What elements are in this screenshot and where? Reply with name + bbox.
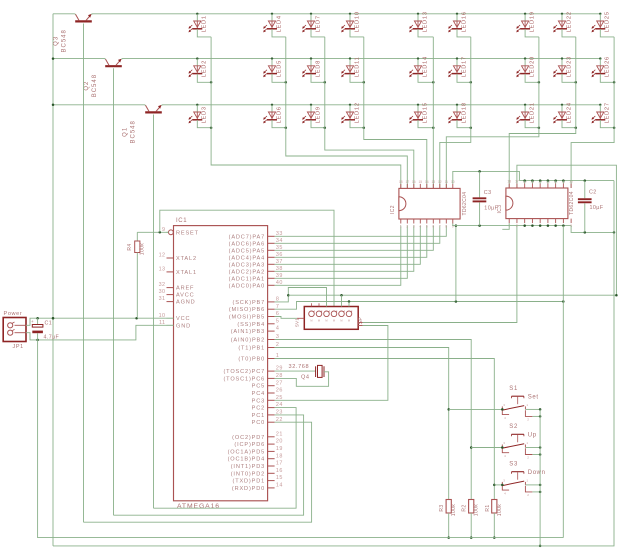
IC ATMEGA16 IC1 body	[174, 218, 268, 510]
svg-text:(ADC5)PA5: (ADC5)PA5	[229, 248, 265, 254]
wire GND from JP1 to IC1 pin11	[26, 325, 167, 341]
wire IC2 supply to rail	[453, 170, 520, 184]
svg-text:(TOSC2)PC7: (TOSC2)PC7	[223, 369, 265, 375]
svg-text:LED7: LED7	[315, 15, 321, 32]
svg-text:(MOSI)PB5: (MOSI)PB5	[229, 315, 265, 321]
wire LED column 6 cathode drop	[440, 29, 472, 188]
svg-text:RESET: RESET	[176, 230, 199, 236]
svg-text:(ICP)PD6: (ICP)PD6	[234, 442, 265, 448]
svg-text:1: 1	[400, 225, 402, 229]
IC1 left pins	[159, 227, 199, 329]
wire LED column 9 cathode drop	[571, 29, 615, 188]
svg-text:LED21: LED21	[530, 102, 536, 123]
LED LED25	[592, 11, 611, 32]
svg-text:18: 18	[276, 453, 283, 459]
svg-text:LED11: LED11	[354, 56, 360, 77]
svg-text:15: 15	[418, 180, 422, 184]
svg-text:SV1: SV1	[295, 318, 300, 327]
wire RESET net	[137, 210, 334, 306]
crystal Q4 32.768	[275, 364, 329, 386]
svg-text:S3: S3	[509, 462, 518, 468]
svg-text:Q2: Q2	[84, 81, 90, 91]
wire Q1 base to PC2 bus	[153, 115, 155, 509]
wire S3 right to common	[525, 484, 541, 494]
svg-text:17: 17	[276, 461, 283, 467]
svg-text:(ADC0)PA0: (ADC0)PA0	[229, 283, 265, 289]
svg-text:AVCC: AVCC	[176, 293, 195, 299]
svg-text:6: 6	[432, 225, 434, 229]
wire row3 anode rail	[53, 104, 600, 106]
transistor Q1 BC548	[123, 105, 162, 144]
svg-text:17: 17	[405, 180, 409, 184]
wire PC3 to ISP	[275, 326, 388, 401]
svg-text:IC2: IC2	[390, 205, 396, 214]
resistor R1 100k	[485, 499, 503, 539]
svg-text:LED5: LED5	[276, 60, 282, 77]
connector SV1 ISP header	[295, 303, 364, 329]
wire PC1 to Q2 base	[114, 415, 304, 515]
wire ISP to IC3 input	[363, 225, 517, 323]
svg-text:LED19: LED19	[530, 11, 536, 32]
svg-text:(SCK)PB7: (SCK)PB7	[232, 300, 265, 306]
wire IC3 gnd drop	[562, 226, 564, 538]
LED LED2	[189, 57, 208, 77]
wire switch common vertical	[539, 409, 542, 547]
wire IC2 bottom pin9 / C3 gnd	[453, 224, 571, 227]
wire PA staircase to IC2	[275, 226, 447, 286]
svg-text:8: 8	[445, 225, 447, 229]
wire MOSI net (PB5) to ISP	[275, 317, 297, 319]
svg-text:(AIN0)PB2: (AIN0)PB2	[231, 338, 265, 344]
svg-text:(ADC4)PA4: (ADC4)PA4	[229, 255, 265, 261]
svg-text:16: 16	[412, 180, 416, 184]
LED LED4	[263, 13, 282, 33]
svg-text:18: 18	[399, 180, 403, 184]
switch S1 Set	[502, 386, 539, 421]
svg-text:LED22: LED22	[566, 11, 572, 32]
LED LED5	[263, 57, 282, 77]
svg-text:Q3: Q3	[54, 36, 60, 46]
LED LED6	[263, 104, 282, 124]
LED LED14	[409, 56, 428, 77]
wire supply rail over IC3	[519, 179, 614, 183]
LED LED7	[302, 13, 321, 33]
LED LED1	[189, 13, 208, 33]
svg-text:(SS)PB4: (SS)PB4	[237, 322, 265, 328]
svg-text:BC548: BC548	[131, 120, 137, 143]
svg-text:S1: S1	[509, 386, 518, 392]
svg-text:LED15: LED15	[422, 102, 428, 123]
wire LED column 4 cathode drop	[350, 29, 427, 188]
wire Q2 base to PC1 bus	[113, 68, 115, 515]
svg-text:LED20: LED20	[530, 56, 536, 77]
wire IC2 ground riser	[455, 224, 458, 301]
wire S1 right to common	[525, 408, 541, 418]
svg-text:LED27: LED27	[605, 102, 611, 123]
svg-text:15: 15	[276, 475, 283, 481]
wire LED column 2 cathode drop	[272, 29, 407, 188]
LED LED3	[189, 104, 208, 124]
LED LED20	[516, 56, 535, 77]
svg-text:M: M	[325, 319, 327, 323]
wire LED column 3 cathode drop	[311, 29, 414, 188]
svg-text:(ADC1)PA1: (ADC1)PA1	[229, 276, 265, 282]
wire row1 anode rail	[53, 13, 600, 15]
resistor R4 100k	[127, 232, 146, 318]
transistor Q2 BC548	[84, 59, 122, 98]
svg-text:Q1: Q1	[123, 127, 129, 137]
svg-text:LED13: LED13	[422, 11, 428, 32]
LED LED12	[341, 102, 360, 123]
LED LED13	[409, 11, 428, 32]
LED LED27	[592, 102, 611, 123]
svg-text:10µF: 10µF	[590, 205, 604, 211]
LED LED23	[553, 56, 572, 77]
LED LED21	[516, 102, 535, 123]
svg-text:(ADC3)PA3: (ADC3)PA3	[229, 262, 265, 268]
svg-text:30: 30	[159, 289, 166, 295]
svg-text:C3: C3	[484, 190, 492, 196]
svg-text:M: M	[333, 319, 335, 323]
wire SCK to IC3 pin	[517, 165, 617, 295]
transistor Q3 BC548	[54, 14, 92, 53]
svg-text:(MISO)PB6: (MISO)PB6	[229, 307, 265, 313]
svg-text:LED10: LED10	[354, 11, 360, 32]
wire LED column 1 cathode drop	[197, 29, 400, 188]
wire PB1 to S1	[275, 348, 450, 500]
svg-text:(OC1B)PD4: (OC1B)PD4	[228, 457, 266, 463]
svg-text:LED26: LED26	[605, 56, 611, 77]
IC2 pins	[399, 180, 455, 229]
svg-text:PC3: PC3	[252, 398, 265, 404]
svg-text:PC4: PC4	[252, 391, 265, 397]
IC TD62C04 IC2 body	[390, 188, 468, 219]
wire VCC bus left vertical	[52, 14, 55, 546]
wire SCK net (PB7)	[275, 288, 618, 307]
svg-text:2: 2	[516, 224, 518, 228]
IC TD62C04 IC3 body	[497, 188, 575, 219]
LED LED10	[341, 11, 360, 32]
svg-text:20: 20	[276, 439, 283, 445]
LED LED19	[516, 11, 535, 32]
LED LED11	[341, 56, 360, 77]
svg-text:M: M	[310, 319, 312, 323]
resistor R2 100k	[462, 499, 480, 539]
connector JP1 Power	[3, 311, 26, 350]
wire VCC bottom bus	[53, 181, 614, 546]
svg-text:5: 5	[426, 225, 428, 229]
svg-text:IC1: IC1	[176, 218, 187, 224]
IC1 right pins	[223, 231, 282, 492]
svg-text:21: 21	[276, 431, 283, 437]
capacitor C2 10uF	[578, 181, 604, 233]
svg-text:JP1: JP1	[13, 344, 24, 350]
svg-text:2: 2	[406, 225, 408, 229]
wire S3 left	[494, 484, 503, 487]
svg-text:27: 27	[276, 380, 283, 386]
svg-text:TD62C04: TD62C04	[569, 191, 575, 215]
svg-text:Up: Up	[528, 433, 537, 439]
svg-text:(T1)PB1: (T1)PB1	[238, 346, 265, 352]
svg-text:(INT0)PD2: (INT0)PD2	[231, 471, 265, 477]
svg-text:AREF: AREF	[176, 286, 194, 292]
svg-text:(OC2)PD7: (OC2)PD7	[232, 435, 265, 441]
svg-text:ATMEGA16: ATMEGA16	[177, 503, 220, 510]
svg-text:100k: 100k	[140, 243, 146, 256]
svg-text:LED24: LED24	[566, 102, 572, 123]
svg-text:10: 10	[569, 179, 573, 183]
svg-text:R3: R3	[439, 504, 445, 511]
svg-text:R4: R4	[127, 243, 133, 250]
svg-text:LED17: LED17	[461, 56, 467, 77]
LED LED18	[448, 102, 467, 123]
svg-text:TD62C04: TD62C04	[462, 192, 468, 216]
svg-text:M: M	[348, 319, 350, 323]
svg-text:PC5: PC5	[252, 384, 265, 390]
svg-text:19: 19	[276, 446, 283, 452]
wire S2 right to common	[525, 446, 541, 456]
svg-text:(ADC7)PA7: (ADC7)PA7	[229, 234, 265, 240]
svg-text:100k: 100k	[451, 504, 457, 517]
svg-text:ISP: ISP	[358, 317, 364, 327]
LED LED9	[302, 104, 321, 124]
wire IC3 pin1 jog	[502, 223, 509, 229]
svg-text:(ADC6)PA6: (ADC6)PA6	[229, 241, 265, 247]
svg-text:7: 7	[439, 225, 441, 229]
svg-text:LED3: LED3	[202, 106, 208, 123]
svg-text:Q4: Q4	[301, 375, 309, 381]
svg-text:LED4: LED4	[276, 15, 282, 32]
svg-text:PC0: PC0	[252, 420, 265, 426]
svg-text:17: 17	[515, 179, 519, 183]
capacitor C3 10uF	[473, 171, 499, 225]
svg-text:LED25: LED25	[605, 11, 611, 32]
svg-text:LED2: LED2	[202, 60, 208, 77]
wire IC3 bottom tie line	[523, 224, 615, 233]
svg-text:31: 31	[159, 296, 166, 302]
wire PB0 to S3	[275, 359, 496, 500]
svg-text:LED9: LED9	[315, 106, 321, 123]
svg-text:GND: GND	[176, 323, 191, 329]
svg-text:(TOSC1)PC6: (TOSC1)PC6	[223, 376, 265, 382]
svg-text:S2: S2	[509, 424, 518, 430]
svg-text:IC3: IC3	[497, 205, 503, 214]
LED LED24	[553, 102, 572, 123]
switch S2 Up	[502, 424, 537, 459]
svg-text:5: 5	[276, 318, 279, 324]
LED LED16	[448, 11, 467, 32]
svg-text:(RXD)PD0: (RXD)PD0	[232, 486, 265, 492]
wire S1 left	[449, 408, 504, 411]
svg-text:LED23: LED23	[566, 56, 572, 77]
LED LED26	[592, 56, 611, 77]
wire GND bottom bus	[38, 340, 564, 538]
svg-text:LED12: LED12	[354, 102, 360, 123]
capacitor C1 4.7uF	[31, 318, 60, 341]
svg-text:100k: 100k	[497, 504, 503, 517]
wire Q3 base to PC0 bus	[83, 24, 85, 523]
svg-text:11: 11	[445, 180, 449, 184]
svg-text:32: 32	[159, 282, 166, 288]
svg-text:XTAL1: XTAL1	[176, 270, 197, 276]
svg-text:BC548: BC548	[62, 29, 68, 52]
svg-text:18: 18	[507, 179, 511, 183]
svg-text:PC2: PC2	[252, 406, 265, 412]
svg-text:XTAL2: XTAL2	[176, 256, 197, 262]
svg-text:(OC1A)PD5: (OC1A)PD5	[228, 449, 266, 455]
svg-text:12: 12	[159, 253, 166, 259]
svg-text:32.768: 32.768	[289, 364, 310, 370]
wire LED column 8 cathode drop	[509, 29, 577, 188]
LED LED17	[448, 56, 467, 77]
svg-text:(ADC2)PA2: (ADC2)PA2	[229, 269, 265, 275]
svg-text:R2: R2	[462, 504, 468, 511]
svg-text:AGND: AGND	[176, 300, 196, 306]
svg-text:14: 14	[425, 180, 429, 184]
wire PC0 to Q3 base	[84, 422, 312, 522]
svg-text:LED16: LED16	[461, 11, 467, 32]
svg-text:(T0)PB0: (T0)PB0	[238, 357, 265, 363]
svg-text:Down: Down	[528, 470, 546, 476]
svg-text:(AIN1)PB3: (AIN1)PB3	[231, 329, 265, 335]
wire VCC from JP1 to IC1 pin10	[26, 317, 167, 325]
wire LED column 7 cathode drop	[446, 29, 540, 188]
svg-text:M: M	[318, 319, 320, 323]
svg-text:4: 4	[276, 326, 279, 332]
LED LED22	[553, 11, 572, 32]
svg-text:4.7µF: 4.7µF	[44, 335, 60, 341]
svg-text:LED8: LED8	[315, 60, 321, 77]
svg-text:C1: C1	[45, 321, 53, 327]
svg-text:M: M	[340, 319, 342, 323]
wire PB2 to S2	[275, 340, 473, 500]
svg-text:100k: 100k	[474, 504, 480, 517]
svg-text:26: 26	[276, 388, 283, 394]
switch S3 Down	[502, 462, 546, 497]
svg-text:Set: Set	[528, 395, 539, 401]
svg-text:LED1: LED1	[202, 15, 208, 32]
svg-text:Power: Power	[4, 311, 23, 317]
LED LED8	[302, 57, 321, 77]
wire row2 anode rail	[53, 58, 600, 60]
resistor R3 100k	[439, 499, 457, 539]
wire LED column 5 cathode drop	[418, 29, 435, 188]
wire MISO net (PB6) long rail	[275, 300, 565, 309]
LED LED15	[409, 102, 428, 123]
svg-text:3: 3	[413, 225, 415, 229]
svg-text:LED14: LED14	[422, 56, 428, 77]
svg-text:R1: R1	[485, 504, 491, 511]
svg-text:(TXD)PD1: (TXD)PD1	[232, 479, 265, 485]
wire S2 left	[471, 446, 503, 449]
IC3 pins	[507, 179, 573, 228]
svg-text:LED6: LED6	[276, 106, 282, 123]
svg-text:C2: C2	[589, 189, 597, 195]
svg-text:14: 14	[276, 483, 283, 489]
svg-text:+: +	[31, 319, 34, 324]
svg-text:(INT1)PD3: (INT1)PD3	[231, 464, 265, 470]
svg-text:LED18: LED18	[461, 102, 467, 123]
svg-text:13: 13	[159, 267, 166, 273]
svg-text:16: 16	[276, 468, 283, 474]
svg-text:12: 12	[438, 180, 442, 184]
svg-text:VCC: VCC	[176, 316, 190, 322]
svg-text:BC548: BC548	[92, 74, 98, 97]
wire PC2 to Q1 base	[154, 408, 297, 509]
svg-text:13: 13	[431, 180, 435, 184]
svg-text:PC1: PC1	[252, 413, 265, 419]
svg-text:4: 4	[419, 225, 421, 229]
